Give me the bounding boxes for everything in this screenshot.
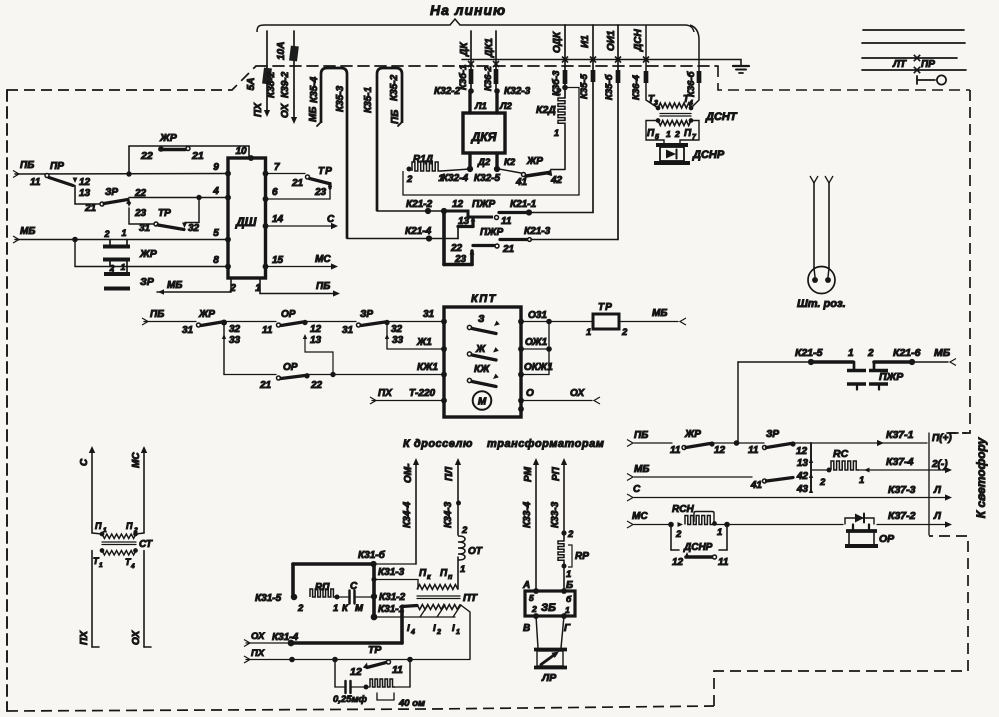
svg-text:МБ: МБ xyxy=(652,308,667,319)
svg-text:1: 1 xyxy=(460,564,465,575)
resistor K2D xyxy=(558,98,565,126)
wire loop K35-1/K35-2 xyxy=(377,68,402,211)
svg-text:5: 5 xyxy=(655,134,659,141)
svg-text:МБ: МБ xyxy=(934,347,951,359)
wire K31-4 OX row xyxy=(244,640,250,647)
svg-text:К35-б: К35-б xyxy=(604,73,615,100)
svg-text:21: 21 xyxy=(84,203,97,214)
svg-text:21: 21 xyxy=(291,178,304,189)
svg-text:ДСНР: ДСНР xyxy=(683,542,713,553)
svg-text:2: 2 xyxy=(555,87,561,97)
wire dashed border left side xyxy=(6,90,8,711)
svg-text:Д2: Д2 xyxy=(477,157,491,168)
svg-text:41: 41 xyxy=(750,480,763,491)
svg-text:22: 22 xyxy=(450,243,463,254)
svg-text:ТР: ТР xyxy=(598,302,613,313)
svg-text:К31-3: К31-3 xyxy=(378,567,405,578)
svg-text:8: 8 xyxy=(213,255,219,266)
svg-text:ОХ: ОХ xyxy=(280,102,291,118)
svg-text:К21-2: К21-2 xyxy=(406,199,433,210)
svg-text:42: 42 xyxy=(550,175,563,186)
svg-text:ЖР: ЖР xyxy=(684,429,701,440)
svg-text:С: С xyxy=(79,458,90,466)
svg-text:31: 31 xyxy=(423,309,435,320)
svg-text:5А: 5А xyxy=(246,78,257,91)
svg-text:32: 32 xyxy=(229,324,241,335)
svg-text:ЗР: ЗР xyxy=(105,187,118,198)
svg-text:4: 4 xyxy=(688,100,693,107)
wire PB bottom pin1 xyxy=(259,278,261,294)
svg-text:К35-5: К35-5 xyxy=(579,73,590,99)
contact ZhR plate stack xyxy=(109,240,111,246)
svg-text:ДК: ДК xyxy=(459,42,470,57)
svg-text:К32-2: К32-2 xyxy=(434,86,461,97)
svg-text:К32-4: К32-4 xyxy=(442,173,469,184)
svg-text:ПБ: ПБ xyxy=(20,160,34,171)
svg-text:ОХ: ОХ xyxy=(570,388,586,399)
svg-text:10А: 10А xyxy=(276,42,287,60)
capacitor 0.25mf xyxy=(335,686,344,688)
svg-text:I: I xyxy=(433,623,436,634)
svg-text:ТР: ТР xyxy=(158,208,171,219)
wire Zh1 row xyxy=(387,348,444,350)
svg-text:ЗР: ЗР xyxy=(140,276,155,288)
svg-text:ТР: ТР xyxy=(318,166,333,177)
svg-text:К21-6: К21-6 xyxy=(893,347,921,359)
svg-text:I: I xyxy=(452,623,455,634)
svg-text:ЖР: ЖР xyxy=(198,309,215,320)
svg-text:к: к xyxy=(427,574,431,581)
relay DSh xyxy=(228,158,266,278)
svg-text:ПХ: ПХ xyxy=(251,648,265,659)
svg-text:ЖР: ЖР xyxy=(526,156,543,167)
svg-text:МБ: МБ xyxy=(308,107,319,122)
svg-text:Ж: Ж xyxy=(475,344,486,355)
svg-text:ПЖР: ПЖР xyxy=(480,227,503,238)
wire K36-b column xyxy=(690,25,699,108)
wire ODK column xyxy=(564,25,566,98)
svg-text:R1Д: R1Д xyxy=(413,154,433,165)
svg-text:43: 43 xyxy=(796,484,809,495)
svg-text:ОЖ1: ОЖ1 xyxy=(525,337,548,348)
motor M xyxy=(473,391,492,410)
svg-text:О: О xyxy=(526,388,534,399)
fuse 5A xyxy=(262,68,272,85)
svg-text:ЗБ: ЗБ xyxy=(541,602,556,614)
svg-text:2: 2 xyxy=(674,129,680,139)
wire branch R1D to ODK xyxy=(403,88,579,196)
svg-text:4: 4 xyxy=(212,186,219,197)
svg-text:13: 13 xyxy=(310,335,322,346)
svg-text:КЖ1: КЖ1 xyxy=(417,362,438,373)
svg-text:ЗР: ЗР xyxy=(766,429,779,440)
svg-text:К32-3: К32-3 xyxy=(504,86,531,97)
svg-text:П: П xyxy=(419,568,427,579)
svg-text:ЗР: ЗР xyxy=(360,309,373,320)
node terminal strip line K37 xyxy=(928,433,930,535)
svg-text:10: 10 xyxy=(235,146,247,157)
svg-text:ПБ: ПБ xyxy=(316,281,330,292)
svg-text:Ж1: Ж1 xyxy=(416,337,432,348)
svg-text:2: 2 xyxy=(621,327,628,338)
wire K21-5 row xyxy=(737,362,739,443)
svg-text:К21-1: К21-1 xyxy=(510,199,537,210)
svg-text:ОДК: ОДК xyxy=(552,31,563,53)
svg-text:П: П xyxy=(684,128,692,139)
rail track lines xyxy=(863,29,964,31)
node line bracket "Na liniyu" xyxy=(257,19,694,32)
svg-text:11: 11 xyxy=(748,445,759,456)
svg-text:М: М xyxy=(355,603,364,614)
contact TR 31-32 xyxy=(129,223,154,225)
wire MB bottom pin2 xyxy=(230,278,232,292)
svg-text:МС: МС xyxy=(131,452,142,468)
svg-text:И1: И1 xyxy=(580,35,591,48)
svg-text:13: 13 xyxy=(458,216,470,227)
svg-text:ОР: ОР xyxy=(879,533,895,545)
svg-text:К дросселю: К дросселю xyxy=(403,438,473,450)
svg-text:1: 1 xyxy=(99,562,103,569)
svg-text:Л1: Л1 xyxy=(474,101,487,112)
svg-text:М: М xyxy=(478,397,487,408)
svg-text:КПТ: КПТ xyxy=(471,293,497,305)
svg-text:П: П xyxy=(440,568,448,579)
svg-text:К37-4: К37-4 xyxy=(886,456,914,468)
wire C row 14 xyxy=(266,225,335,227)
svg-text:К31-б: К31-б xyxy=(358,549,386,561)
wire MB row xyxy=(627,474,633,481)
wire PX line column xyxy=(266,31,268,111)
transformer ST column C xyxy=(89,446,95,453)
svg-text:1: 1 xyxy=(333,603,338,614)
contact ZR 21-22-23 xyxy=(75,203,100,205)
svg-text:ОМ-: ОМ- xyxy=(403,463,414,483)
svg-text:1: 1 xyxy=(666,129,671,139)
svg-text:К31-5: К31-5 xyxy=(255,593,282,604)
svg-text:23: 23 xyxy=(454,254,467,265)
svg-text:ПХ: ПХ xyxy=(253,102,264,117)
wire dash-dot boundary line top xyxy=(256,65,718,67)
svg-text:1: 1 xyxy=(859,475,864,486)
svg-text:К37-3: К37-3 xyxy=(888,484,916,496)
svg-text:12: 12 xyxy=(452,199,464,210)
inductor OT xyxy=(458,536,465,560)
resistor 40 om xyxy=(370,679,395,687)
svg-text:К37-1: К37-1 xyxy=(886,429,914,441)
svg-text:В: В xyxy=(523,623,530,634)
svg-text:К2Д: К2Д xyxy=(536,104,556,116)
svg-text:К33-3: К33-3 xyxy=(550,501,561,528)
wire PX bottom row xyxy=(244,656,250,663)
svg-text:11: 11 xyxy=(30,177,41,188)
svg-text:31: 31 xyxy=(342,325,354,336)
svg-text:ПХ: ПХ xyxy=(79,630,90,645)
contact KPT Zh xyxy=(467,352,471,356)
svg-text:СТ: СТ xyxy=(139,539,153,550)
svg-text:2: 2 xyxy=(297,603,304,614)
svg-text:К34-3: К34-3 xyxy=(443,501,454,528)
svg-text:1: 1 xyxy=(438,173,443,184)
svg-text:МС: МС xyxy=(315,254,331,265)
svg-text:Л2: Л2 xyxy=(499,101,513,112)
svg-text:К35-4: К35-4 xyxy=(309,76,320,103)
svg-text:РП: РП xyxy=(551,466,562,481)
svg-text:40 ом: 40 ом xyxy=(398,698,425,709)
svg-text:ЛТ: ЛТ xyxy=(892,59,907,70)
svg-text:К37-2: К37-2 xyxy=(888,510,916,522)
svg-text:2: 2 xyxy=(461,525,468,536)
plug Sht.roz xyxy=(813,182,815,268)
svg-text:К21-3: К21-3 xyxy=(524,226,551,237)
svg-text:0,25мф: 0,25мф xyxy=(333,694,368,705)
wire K21-2 row xyxy=(377,210,444,212)
node LT track mark xyxy=(914,55,920,61)
svg-text:42: 42 xyxy=(796,471,809,482)
wire DSN column xyxy=(646,25,658,108)
svg-text:Л: Л xyxy=(933,511,942,522)
svg-text:п: п xyxy=(448,574,453,581)
fuse 10A xyxy=(289,46,299,62)
wire dashed border right side xyxy=(948,90,970,433)
wire K37-4 row xyxy=(858,469,948,471)
svg-text:КЖ: КЖ xyxy=(474,364,490,375)
wire PB row KPT xyxy=(142,318,148,325)
svg-text:ПБ: ПБ xyxy=(390,110,401,124)
svg-text:ОКЖ1: ОКЖ1 xyxy=(524,362,553,373)
svg-text:б: б xyxy=(566,594,572,604)
contact PZhR 22-23-21 xyxy=(442,211,446,265)
svg-text:МБ: МБ xyxy=(20,226,35,237)
svg-text:9: 9 xyxy=(213,162,219,173)
resistor R1D xyxy=(407,167,412,172)
wire loop K35-4/K35-3 xyxy=(321,68,347,239)
svg-text:П: П xyxy=(95,521,102,531)
wire dashed border bottom xyxy=(7,706,714,711)
svg-text:1: 1 xyxy=(565,605,570,615)
svg-text:5: 5 xyxy=(213,228,219,239)
contact KPT KZh xyxy=(467,378,471,382)
wire row 8 xyxy=(75,266,228,268)
svg-text:4: 4 xyxy=(130,563,135,570)
svg-text:ПР: ПР xyxy=(921,59,935,70)
svg-text:К34-4: К34-4 xyxy=(402,501,413,528)
svg-text:12: 12 xyxy=(310,324,322,335)
wire MB row 5 xyxy=(13,236,19,243)
wire K34-3 PL column xyxy=(455,458,461,465)
svg-text:1: 1 xyxy=(566,569,571,580)
svg-text:ЛР: ЛР xyxy=(541,672,557,684)
svg-text:С: С xyxy=(327,214,335,225)
svg-text:11: 11 xyxy=(501,216,512,227)
svg-text:МБ: МБ xyxy=(167,280,182,291)
ground symbol xyxy=(740,60,742,67)
svg-text:ДК1: ДК1 xyxy=(484,38,495,58)
svg-text:31: 31 xyxy=(139,223,151,234)
svg-text:Г: Г xyxy=(564,623,571,634)
contact ZhR 41-42 xyxy=(499,169,521,173)
svg-text:21: 21 xyxy=(259,380,272,391)
wire DK column xyxy=(470,31,472,91)
svg-text:1: 1 xyxy=(717,527,722,538)
wire DK1 column xyxy=(495,31,497,91)
resistor TR box xyxy=(593,314,619,329)
svg-text:К35-2: К35-2 xyxy=(389,74,400,101)
contact OR xyxy=(852,525,854,530)
wire MC row 15 xyxy=(266,266,335,268)
wire K21-4 row xyxy=(347,238,458,240)
svg-text:5: 5 xyxy=(529,593,534,603)
svg-text:32: 32 xyxy=(188,223,200,234)
wire dashed boundary step right xyxy=(718,66,970,90)
wire PX column xyxy=(91,551,93,648)
svg-text:23: 23 xyxy=(314,187,327,198)
svg-text:ОИ1: ОИ1 xyxy=(606,30,617,51)
wire OKZh1 row with OR 21-22 xyxy=(224,374,276,376)
svg-text:К33-4: К33-4 xyxy=(522,501,533,528)
svg-text:1: 1 xyxy=(121,262,126,272)
svg-text:33: 33 xyxy=(229,335,241,346)
wire dashed border bottom-right step xyxy=(714,536,968,706)
svg-text:К31-2: К31-2 xyxy=(379,592,406,603)
svg-text:11: 11 xyxy=(392,664,403,676)
svg-text:22: 22 xyxy=(140,150,153,162)
svg-text:Б: Б xyxy=(566,580,573,591)
svg-text:ОР: ОР xyxy=(281,309,296,320)
svg-text:ОТ: ОТ xyxy=(468,546,483,557)
wire DSNT secondary to DSNR xyxy=(646,121,664,145)
node bracket 12-13-42-43 xyxy=(810,443,812,492)
rectifier DSNR xyxy=(656,143,688,147)
wire K21-1 row xyxy=(529,212,593,214)
svg-text:2: 2 xyxy=(103,229,109,239)
wire OX line column xyxy=(293,31,295,118)
wire MC row K37-2 xyxy=(627,521,633,528)
transformer ST column MC xyxy=(141,446,147,453)
svg-text:21: 21 xyxy=(191,150,204,162)
svg-text:2: 2 xyxy=(531,604,537,614)
svg-text:11: 11 xyxy=(718,557,729,568)
svg-text:1: 1 xyxy=(554,128,559,138)
svg-text:К35-1: К35-1 xyxy=(363,86,374,113)
contact TR 21-23 right xyxy=(266,173,306,175)
svg-text:ДСН: ДСН xyxy=(633,29,644,52)
contact DSNR 12-11 xyxy=(670,525,672,551)
svg-text:К2: К2 xyxy=(504,157,516,168)
wire K34-4 OM column xyxy=(413,458,419,465)
svg-text:ПЖР: ПЖР xyxy=(879,371,904,383)
svg-text:13: 13 xyxy=(79,188,91,199)
svg-text:ДКЯ: ДКЯ xyxy=(471,130,497,144)
svg-text:Шт. роз.: Шт. роз. xyxy=(797,298,846,310)
svg-text:ОХ: ОХ xyxy=(131,629,142,645)
svg-text:МС: МС xyxy=(632,511,648,522)
svg-text:ЖР: ЖР xyxy=(159,132,178,144)
svg-text:К36-б: К36-б xyxy=(686,70,697,97)
resistor RC xyxy=(811,469,829,471)
wire OX column xyxy=(143,551,145,648)
svg-text:12: 12 xyxy=(350,666,362,678)
svg-text:12: 12 xyxy=(796,446,808,457)
svg-text:РМ: РМ xyxy=(523,466,534,482)
svg-text:1: 1 xyxy=(456,629,460,636)
svg-text:2: 2 xyxy=(567,529,574,540)
svg-text:К32-5: К32-5 xyxy=(474,173,501,184)
lamp LR xyxy=(536,616,538,648)
wire PB row K37-1 xyxy=(627,440,633,447)
wire PX T-220 row xyxy=(370,397,376,404)
svg-text:ОР: ОР xyxy=(283,362,298,373)
transformer PT xyxy=(417,585,458,590)
svg-text:К38-2: К38-2 xyxy=(266,71,277,98)
svg-text:7: 7 xyxy=(274,162,280,173)
wire PB row 9 xyxy=(13,171,19,178)
svg-text:2: 2 xyxy=(867,348,874,359)
node PR track mark xyxy=(914,67,920,73)
svg-text:К35-3: К35-3 xyxy=(335,85,346,112)
wire I1 column xyxy=(592,25,594,213)
svg-text:RР: RР xyxy=(575,551,589,562)
wire K33-3 RP column xyxy=(561,458,567,465)
svg-text:Т-220: Т-220 xyxy=(409,388,436,399)
svg-text:6: 6 xyxy=(272,187,278,198)
svg-text:К21-5: К21-5 xyxy=(795,347,823,359)
svg-text:З: З xyxy=(478,314,485,325)
svg-text:13: 13 xyxy=(797,458,809,469)
svg-text:33: 33 xyxy=(392,335,404,346)
svg-text:1: 1 xyxy=(121,228,126,238)
svg-text:К39-2: К39-2 xyxy=(280,71,291,98)
svg-text:ДСНТ: ДСНТ xyxy=(705,111,738,123)
svg-text:ОХ: ОХ xyxy=(251,631,265,642)
svg-text:ПР: ПР xyxy=(50,161,64,172)
contact KPT Z xyxy=(467,325,471,329)
svg-text:14: 14 xyxy=(272,214,284,225)
relay DKYA xyxy=(463,113,505,153)
svg-text:12: 12 xyxy=(79,177,91,188)
svg-text:2: 2 xyxy=(675,529,682,540)
svg-text:1: 1 xyxy=(586,327,591,338)
svg-text:I: I xyxy=(407,623,410,634)
wire K33-4 RM column xyxy=(533,458,539,465)
diode OR bypass xyxy=(845,518,874,525)
svg-text:11: 11 xyxy=(262,325,273,336)
wire dashed border top-left xyxy=(7,66,256,90)
wire C row K37-3 xyxy=(627,494,633,501)
svg-text:ДШ: ДШ xyxy=(235,215,257,229)
svg-text:12: 12 xyxy=(672,557,684,568)
svg-text:К21-4: К21-4 xyxy=(405,226,432,237)
svg-text:МБ: МБ xyxy=(634,464,649,475)
svg-text:На линию: На линию xyxy=(430,2,506,18)
svg-text:ДСНР: ДСНР xyxy=(692,149,725,161)
svg-text:2: 2 xyxy=(109,263,115,273)
contact PZhR plates xyxy=(853,362,856,369)
transformer DSNT xyxy=(656,106,661,111)
svg-text:2: 2 xyxy=(436,629,441,636)
svg-text:RC: RC xyxy=(833,448,849,460)
svg-text:С: С xyxy=(633,484,641,495)
svg-text:П: П xyxy=(126,521,133,531)
svg-text:15: 15 xyxy=(272,255,284,266)
svg-text:ПТ: ПТ xyxy=(463,592,479,604)
svg-text:К36-4: К36-4 xyxy=(631,74,642,100)
svg-text:А: А xyxy=(522,580,530,591)
contact ZR plate stack xyxy=(112,267,114,274)
wire common line to ground xyxy=(462,59,741,61)
battery ZB xyxy=(525,591,575,616)
svg-text:11: 11 xyxy=(670,445,681,456)
node track key symbol xyxy=(916,76,918,84)
